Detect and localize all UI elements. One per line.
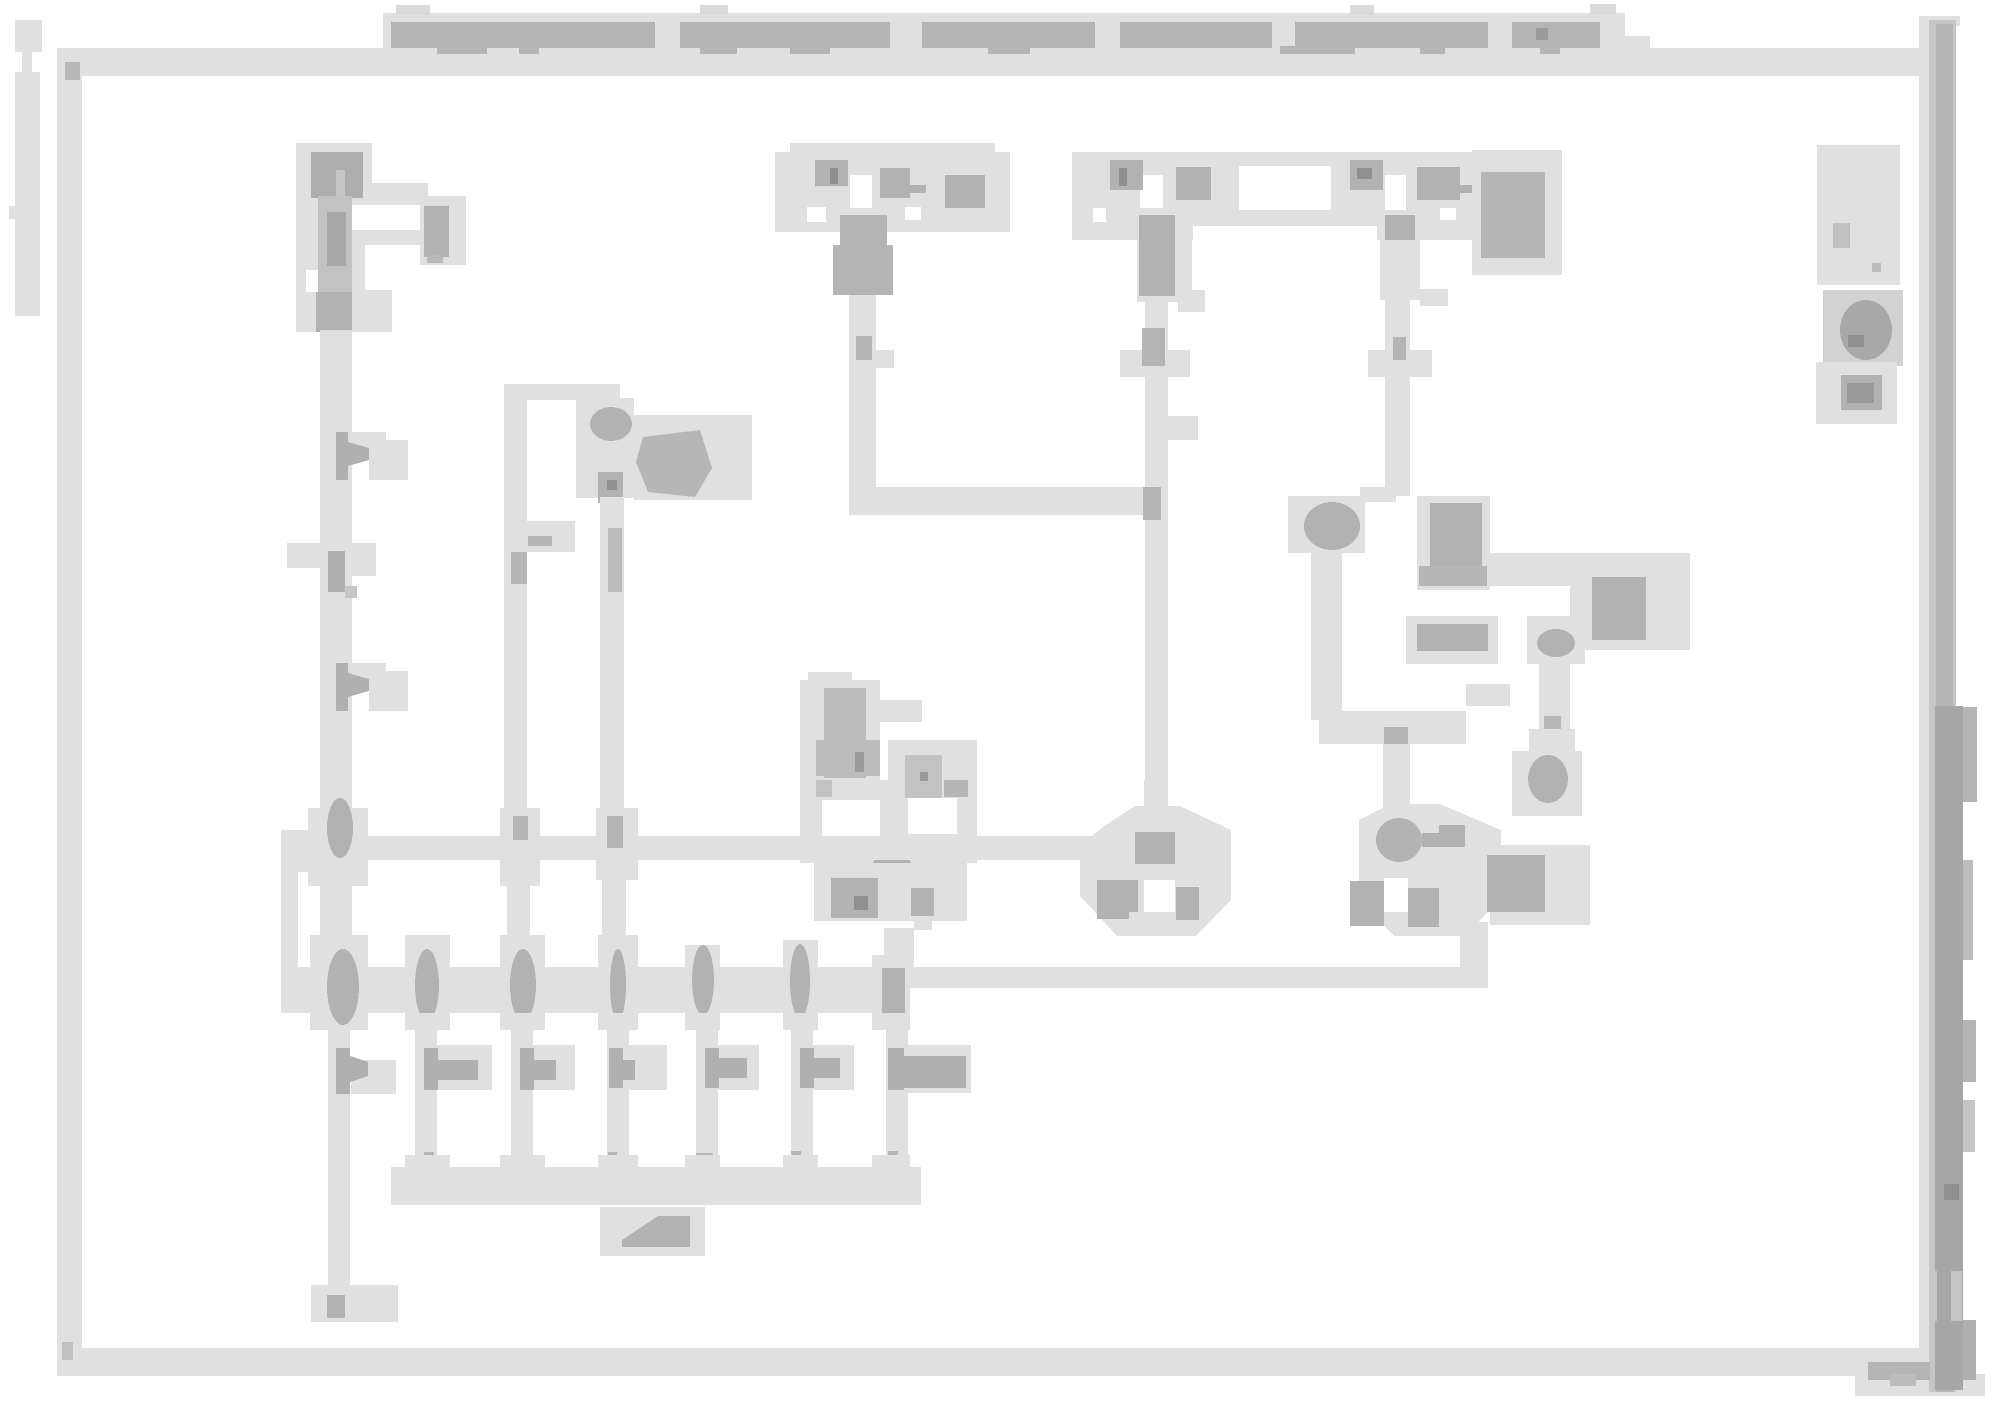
legend grommet symbol xyxy=(1823,290,1903,366)
node N1 on W6 xyxy=(598,472,623,503)
junction J5 (W1 x B2) xyxy=(327,949,359,1025)
wire W3 (C4 left leg, long vertical) xyxy=(1120,215,1205,818)
wire W2b (drop 2) xyxy=(415,1013,437,1168)
junction J2 (W1 x B1) xyxy=(327,798,353,858)
lamp L2 (courtesy lamp right) xyxy=(1350,780,1590,936)
wire W2 (from C2 left leg) xyxy=(504,398,527,818)
terminal T8 (on W6b) xyxy=(800,1045,854,1090)
collector bar (ground rail) xyxy=(391,1155,921,1205)
terminal T7 (on W5b) xyxy=(705,1045,759,1090)
terminal T9 (on W7b) xyxy=(888,1045,971,1093)
link wire B1-B2 xyxy=(281,846,298,992)
wire W5-W3 link (horizontal) xyxy=(849,487,1161,515)
junction J10 (W6b x B2) xyxy=(790,944,810,1018)
splice ticks above collector xyxy=(424,1151,898,1172)
title text (pixelated heading) xyxy=(383,4,1650,57)
wire W2 lower segment xyxy=(504,856,535,886)
connector half C2a on W1 xyxy=(287,543,376,598)
fusible link F1 (in C1 arm) xyxy=(424,206,449,257)
junction J1 (W3 x link) xyxy=(1143,487,1161,520)
bus B2 (lower ground bus) xyxy=(281,922,1488,1030)
relay K1 xyxy=(1288,487,1690,816)
K1 contact terminal xyxy=(1570,553,1690,650)
legend splice symbol xyxy=(1816,362,1897,424)
wire W4b (relay to lamp L2) xyxy=(1383,744,1410,814)
wire W6 lower segment xyxy=(602,860,626,970)
K1 loop left leg xyxy=(1311,550,1342,720)
wire W4 (C4 right leg) xyxy=(1368,215,1448,496)
C1 stem xyxy=(318,196,352,296)
K1 lower contact xyxy=(1406,616,1498,664)
wire W6 (from C2 terminal down) xyxy=(600,497,624,817)
C1 terminal pins xyxy=(311,152,363,198)
junction J8 (W4b x B2) xyxy=(610,949,626,1021)
terminal T2 on W1 xyxy=(336,663,408,711)
page binding strip (right edge) xyxy=(1919,16,1977,1392)
splice tick on W3 xyxy=(1120,350,1190,377)
C4 right end cap xyxy=(1472,150,1562,275)
page margin mark (left edge) xyxy=(9,20,42,316)
wire W5 (C3 stem) xyxy=(833,215,894,492)
terminal T3 (on W1 drop) xyxy=(336,1048,396,1094)
legend connector symbol xyxy=(1817,145,1900,285)
C3 pins xyxy=(815,160,985,208)
K1 coil terminal (left oval) xyxy=(1288,496,1365,553)
junction J3 (W2 x B1) xyxy=(513,816,528,840)
ground G2 (below collector) xyxy=(600,1207,705,1256)
junction J6 (W2b x B2) xyxy=(415,949,439,1021)
splice tick on W4 xyxy=(1368,350,1432,377)
terminal T4 (on W2b) xyxy=(424,1045,492,1090)
wire W8 (node to ground) xyxy=(1539,657,1570,729)
terminal T6 (on W4b2) xyxy=(609,1045,667,1090)
terminal T1 on W1 xyxy=(336,432,408,480)
junction J11 (W7b x B2) xyxy=(882,968,905,1013)
K1 contact arm xyxy=(1488,553,1690,586)
connector C5 (lamp L2 right) xyxy=(1490,845,1590,925)
lamp L1 (courtesy lamp left) xyxy=(1080,780,1231,936)
K1 coil body xyxy=(1417,496,1490,590)
bus B1 (upper ground bus) xyxy=(281,808,1104,886)
frame corner marks xyxy=(65,62,80,80)
junction J4 (W6 x B1) xyxy=(607,816,623,848)
junction J7 (W3b x B2) xyxy=(510,949,536,1021)
S1 upper splice arrow xyxy=(824,688,866,778)
wire W4b2 (drop 4) xyxy=(607,1013,629,1167)
C2 arrow terminal xyxy=(636,430,712,497)
splice tick on W5 xyxy=(856,336,872,360)
terminal T5 (on W3b) xyxy=(520,1045,575,1090)
wire W1 (left vertical feed) xyxy=(320,330,352,1024)
node N2 xyxy=(1527,616,1585,664)
ground G3 xyxy=(1512,751,1582,816)
wire W6b (drop 6) xyxy=(791,1013,813,1167)
connector C2 (inline connector loop) xyxy=(504,384,752,503)
wire W5b (drop 5) xyxy=(696,1013,718,1168)
wire W7b (drop 7) xyxy=(886,1013,908,1168)
bottom-right corner marks xyxy=(1868,1362,1930,1386)
splice block S1 xyxy=(800,672,977,970)
ground G1 (bottom of W1) xyxy=(311,1285,398,1322)
connector C4 (top center row) xyxy=(1072,150,1562,275)
wire W3b (drop 3) xyxy=(511,1013,533,1171)
C4 pins xyxy=(1110,160,1472,200)
K1 loop bottom bar xyxy=(1319,711,1466,744)
connector C3 (top middle) xyxy=(775,143,1010,232)
connector half C2b on W2 xyxy=(511,521,575,584)
connector C1 (battery feed, top left) xyxy=(296,143,466,332)
C2 cavity dot xyxy=(590,407,632,441)
legend symbol column (right margin) xyxy=(1816,145,1903,424)
junction J9 (W5b x B2) xyxy=(692,945,714,1015)
